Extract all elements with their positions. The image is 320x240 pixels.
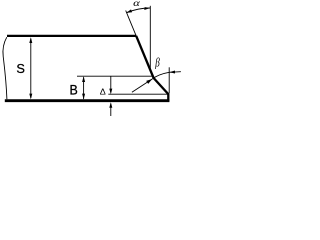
B top arrowhead xyxy=(82,76,85,82)
S bottom arrowhead xyxy=(29,94,32,100)
B bottom arrowhead xyxy=(82,94,85,100)
nose face (second bevel) xyxy=(154,78,169,94)
delta upper dimension line xyxy=(110,76,112,92)
bevel extension line xyxy=(126,11,137,36)
svg-text:β: β xyxy=(154,56,160,70)
B dimension line xyxy=(83,77,85,99)
bevel face (steep chamfer) xyxy=(136,36,153,78)
delta lower arrowhead (up) xyxy=(109,102,112,108)
left break line xyxy=(3,37,7,99)
plate top surface xyxy=(7,35,136,37)
alpha arc left arrowhead xyxy=(126,9,132,13)
right end face xyxy=(167,94,169,102)
beta arc left tail xyxy=(132,79,152,92)
delta extension line xyxy=(108,93,168,95)
alpha dimension arc xyxy=(127,8,151,13)
beta right arrowhead xyxy=(169,71,175,74)
svg-text:Δ: Δ xyxy=(100,87,106,97)
svg-text:B: B xyxy=(69,82,77,98)
plate bottom surface xyxy=(5,99,170,102)
beta dimension arc xyxy=(152,72,169,79)
S dimension line xyxy=(30,39,32,98)
S top arrowhead xyxy=(29,37,32,43)
beta arc right tail xyxy=(169,71,181,74)
delta upper arrowhead (down) xyxy=(109,89,112,95)
beta vertical extension line xyxy=(168,67,170,93)
svg-text:S: S xyxy=(16,61,25,76)
alpha arc right arrowhead xyxy=(144,7,150,10)
beta left arrowhead xyxy=(146,79,152,84)
alpha vertical extension line xyxy=(149,6,151,70)
B extension line xyxy=(77,75,153,77)
delta lower dimension line xyxy=(110,104,112,116)
